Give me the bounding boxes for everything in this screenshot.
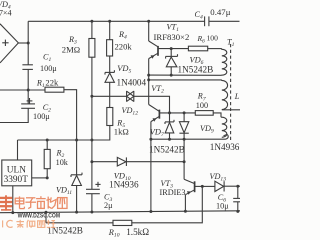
node VT2 emitter bottom (149, 138, 152, 141)
wire rail to R3 (91, 21, 93, 38)
label R2 10k (56, 149, 69, 167)
wire ULN right pin to R2 bottom (32, 177, 48, 179)
wire W2 bottom tap to right edge (222, 109, 240, 111)
wire y75 to winding1 bottom (149, 74, 222, 76)
watermark text dian zi shi chang wang (15, 196, 67, 208)
node R10 return riser (45, 211, 48, 214)
svg-text:1N5242B: 1N5242B (178, 65, 214, 75)
wire emitter row y139 (151, 138, 226, 140)
wire riser to top rail (27, 21, 29, 43)
label R7 100 (196, 92, 208, 110)
capacitor C2 plus (27, 98, 33, 104)
label R5 1kOhm (114, 118, 129, 136)
node base/VD6 (170, 47, 173, 50)
node R2 top (46, 139, 49, 142)
node VT2 emitter ground (149, 210, 152, 213)
svg-text:1N4936: 1N4936 (210, 142, 240, 152)
transistor VT2 (149, 105, 160, 140)
label VD13 (210, 172, 227, 183)
capacitor C3 plus (95, 182, 100, 187)
node R2 bottom (46, 176, 49, 179)
label ULN 3390T (4, 166, 29, 185)
watermark text WWW.DZSC.COM (18, 213, 61, 220)
transformer T1 winding W3 (221, 117, 227, 137)
capacitor C1 (22, 65, 33, 70)
label C6 10u (216, 193, 229, 211)
transformer T1 winding W2 (222, 80, 228, 110)
label VD7 (150, 127, 164, 138)
wire bottom row right then up to VT3 base (132, 186, 203, 222)
svg-text:IRDIE3: IRDIE3 (160, 188, 186, 197)
node (92,161.7) (90, 160, 93, 163)
wire bottom row left (46, 222, 113, 224)
node C6 top (236, 185, 239, 188)
node VD7 top / base elbow (168, 111, 171, 114)
wire VT2 base row y113 (159, 112, 195, 114)
label C4 0.47u (195, 7, 231, 21)
svg-text:1N4004: 1N4004 (117, 77, 147, 87)
label VD11 (56, 186, 72, 197)
svg-text:1.5kΩ: 1.5kΩ (126, 227, 149, 237)
diode VD13 (202, 181, 240, 191)
node VD11 ground (75, 211, 78, 214)
zener VD6 (166, 49, 178, 76)
node bridge+ junction (27, 42, 30, 45)
label VT1 IRF830x2 (154, 23, 190, 43)
wire y80 to winding2 top (149, 79, 222, 81)
resistor R2 (44, 140, 50, 178)
wire y140 control row (18, 139, 92, 141)
resistor R3 (89, 39, 95, 58)
resistor R5 (107, 108, 113, 126)
resistor R1 (45, 87, 64, 92)
svg-text:3390T: 3390T (4, 175, 29, 185)
svg-text:1kΩ: 1kΩ (114, 126, 129, 136)
wire ULN top pin (17, 140, 19, 160)
label VD10 1N4936 (109, 172, 139, 190)
svg-text:10k: 10k (56, 158, 69, 167)
transistor VT1 (149, 21, 158, 59)
svg-text:100μ: 100μ (33, 112, 50, 121)
svg-text:2MΩ: 2MΩ (62, 44, 80, 54)
node at (28,90) (27, 89, 30, 92)
diode VD9 (179, 113, 188, 162)
label VT2 (151, 84, 164, 95)
svg-text:2μ: 2μ (104, 201, 113, 210)
svg-text:7×4: 7×4 (0, 9, 12, 18)
svg-text:0.47μ: 0.47μ (210, 7, 230, 17)
label VD9 1N4936 (200, 124, 240, 152)
transformer T1 winding W1 (222, 49, 227, 76)
capacitor C3 (86, 189, 100, 212)
wire top rail left of C4 (28, 20, 204, 22)
wire C1 to node y90 (27, 69, 29, 90)
svg-text:10μ: 10μ (216, 202, 229, 211)
zener VD5 (105, 70, 114, 82)
node VD9/VD10 junction (183, 160, 186, 163)
IC ULN3390T box (2, 160, 32, 186)
capacitor C4 (205, 16, 209, 26)
label R4 220k (115, 30, 133, 51)
capacitor C2 (21, 90, 35, 108)
node VD7 bottom (168, 138, 171, 141)
wire node down to C1 (27, 43, 29, 65)
wire emitter VT1 down (148, 59, 150, 105)
node VT3 base (201, 185, 204, 188)
node VD11 top (75, 139, 78, 142)
resistor R4 (107, 40, 113, 56)
zener VD7 (165, 113, 174, 139)
node C6 bottom (236, 210, 239, 213)
watermark text IC cai gou wang zhan (3, 220, 56, 228)
label R6 100 (197, 34, 219, 45)
zener VD11 (71, 140, 82, 212)
bridge rectifier VD1-VD4 (0, 24, 18, 63)
svg-text:L: L (234, 92, 240, 101)
bidirectional zener VD12 (127, 91, 134, 102)
capacitor C6 (233, 186, 240, 211)
wire R7 to winding3 top (213, 113, 221, 117)
wire y96 left segment (92, 95, 127, 97)
label VD1~VD4 1N4007x4 (cut at left edge) (0, 0, 12, 18)
label C1 100u (40, 53, 57, 73)
wire C2 bottom to left edge (0, 108, 28, 122)
node ULN ground (11, 211, 14, 214)
transformer core dashed line (230, 44, 232, 142)
wire top rail right of C4 (209, 20, 240, 22)
svg-text:100μ: 100μ (40, 64, 57, 73)
wire y96 right segment to VT2 base elbow (134, 96, 170, 113)
label 1N5242B (VD11) (47, 226, 83, 236)
label VD12 (122, 106, 139, 117)
node VD6 bottom (170, 74, 173, 77)
wire R6 to winding1 top (208, 48, 222, 50)
wire y90 from left edge (0, 89, 45, 91)
diode VD10 (117, 157, 184, 166)
wire ULN bottom pin (12, 186, 14, 212)
svg-text:100: 100 (207, 34, 219, 43)
label R3 2MOhm (62, 35, 80, 54)
wire VD5 to R5 (crosses wire y96) (109, 82, 111, 107)
wire bridge output to node (18, 42, 28, 44)
node R4 top (108, 20, 111, 23)
label T1 (227, 38, 235, 49)
label L (234, 92, 240, 101)
label R10 1.5kOhm (108, 227, 149, 239)
ground rail (0, 211, 240, 213)
label VD5 (117, 64, 131, 75)
resistor R10 (113, 220, 132, 225)
node VD9 crossing (183, 138, 186, 141)
node VT1 collector top (147, 20, 150, 23)
watermark logo icon (0, 195, 12, 210)
wire R1 right then down to wire y140 (64, 90, 77, 140)
wire y161.7 VD10 row (92, 161, 117, 163)
label 1N4004 (117, 77, 147, 87)
node (148.7,79.9) (147, 78, 150, 81)
wire rail to R4 (109, 21, 111, 39)
svg-text:100: 100 (196, 101, 208, 110)
transistor VT3 (184, 162, 202, 212)
node (148.7,75.1) (147, 74, 150, 77)
svg-text:1N5242B: 1N5242B (149, 144, 185, 154)
wire R3 down the mid-left column (91, 57, 93, 189)
wire VT1 base to R6 (158, 48, 188, 50)
node C3 ground (90, 211, 93, 214)
svg-text:1N4936: 1N4936 (109, 179, 139, 189)
node VD9 top (183, 111, 186, 114)
wire hook to winding3 bottom (224, 135, 229, 140)
wire R5 bottom elbow to wire y140 (92, 126, 110, 141)
node (92,96.3) (90, 95, 93, 98)
svg-text:220k: 220k (115, 41, 133, 51)
svg-text:WWW.DZSC.COM: WWW.DZSC.COM (18, 213, 61, 220)
svg-text:IRF830×2: IRF830×2 (154, 32, 190, 42)
wire R10 return riser (45, 212, 47, 223)
node (92,140) (90, 139, 93, 142)
node R3 top (90, 20, 93, 23)
label C2 100u (33, 103, 51, 121)
label R1 22k (36, 78, 59, 90)
wire VT2 emitter column to ground (150, 139, 152, 212)
label C3 2u (104, 192, 113, 210)
svg-text:22k: 22k (45, 78, 59, 88)
resistor R6 (188, 46, 207, 51)
label 1N5242B (VD7) (149, 144, 185, 154)
wire R4 to VD5 (109, 56, 111, 72)
node VT3 emitter ground (184, 210, 187, 213)
resistor R7 (195, 111, 213, 116)
label VD6 1N5242B (178, 55, 214, 74)
label VT3 IRDIE3 (160, 179, 186, 197)
